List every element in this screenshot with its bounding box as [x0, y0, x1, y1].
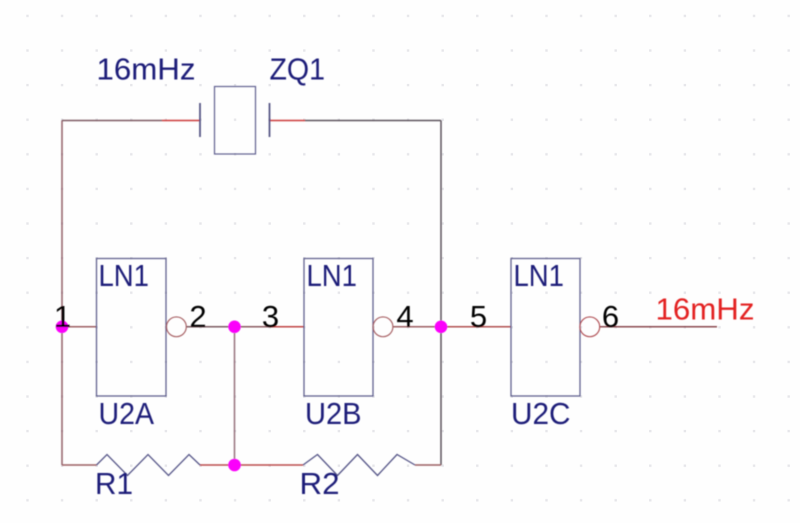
wire U2B input pin stub	[270, 326, 305, 328]
wire R2 to bottom right	[415, 464, 441, 466]
inverter U2C body	[511, 259, 580, 397]
wire node 5 to U2C input	[441, 326, 511, 328]
inverter U2B bubble	[373, 317, 393, 337]
wire node 2 to U2B input	[235, 326, 270, 328]
svg-text:ZQ1: ZQ1	[270, 52, 326, 87]
svg-text:U2C: U2C	[511, 396, 571, 431]
junction node 2/3	[228, 321, 241, 334]
wire left vertical (node 1 to R1)	[61, 121, 63, 466]
svg-text:16mHz: 16mHz	[97, 52, 196, 87]
junction node 1	[56, 321, 69, 334]
crystal ZQ1 body	[215, 87, 256, 155]
svg-text:LN1: LN1	[514, 258, 565, 293]
svg-text:R1: R1	[95, 466, 133, 501]
svg-text:5: 5	[470, 299, 487, 334]
wire top right horizontal	[305, 120, 441, 122]
wire U2A output to node 2	[186, 326, 234, 328]
wire crystal left pin stub	[162, 120, 200, 122]
svg-text:U2A: U2A	[99, 396, 155, 431]
svg-text:2: 2	[189, 299, 206, 334]
svg-text:U2B: U2B	[305, 396, 362, 431]
wire U2B output to node 5	[393, 326, 441, 328]
crystal ZQ1 left plate	[199, 103, 201, 137]
svg-text:16mHz: 16mHz	[656, 292, 755, 327]
svg-text:3: 3	[262, 299, 279, 334]
wire top left horizontal	[62, 120, 162, 122]
svg-text:LN1: LN1	[307, 258, 358, 293]
inverter U2A bubble	[167, 317, 187, 337]
crystal ZQ1 right plate	[269, 103, 271, 137]
svg-text:LN1: LN1	[99, 258, 150, 293]
wire right vertical (crystal to node 5 to R2)	[440, 121, 442, 466]
svg-text:1: 1	[54, 299, 71, 334]
junction node 5	[435, 321, 448, 334]
resistor R1 zigzag	[97, 455, 201, 476]
resistor R2 zigzag	[303, 455, 415, 476]
wire bottom left to R1	[62, 464, 97, 466]
wire R1 to bottom junction	[200, 464, 235, 466]
svg-text:6: 6	[602, 299, 619, 334]
svg-text:R2: R2	[300, 466, 340, 501]
inverter U2A body	[97, 259, 167, 397]
wire bottom junction to R2	[235, 464, 304, 466]
wire crystal right pin stub	[270, 120, 306, 122]
inverter U2C bubble	[580, 317, 600, 337]
wire U2C output (16mHz out)	[600, 326, 717, 328]
inverter U2B body	[304, 259, 373, 397]
wire node 2 down to R1/R2 junction	[234, 327, 236, 465]
wire node 1 to U2A input	[62, 326, 97, 328]
svg-text:4: 4	[396, 299, 413, 334]
junction R1/R2	[228, 459, 241, 472]
